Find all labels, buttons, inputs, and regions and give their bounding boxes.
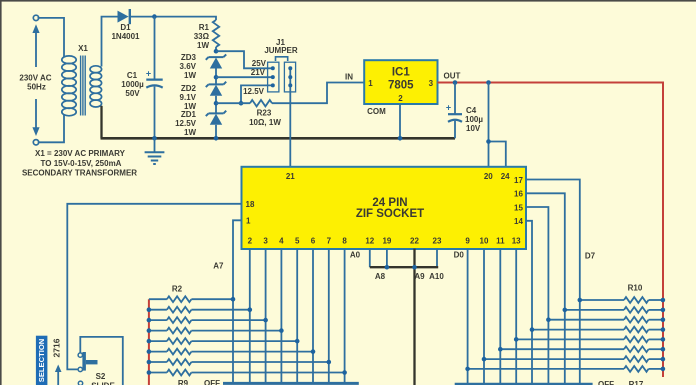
wire ZIF pin 9 vertical <box>467 249 469 384</box>
svg-text:7: 7 <box>327 237 332 246</box>
svg-text:18: 18 <box>246 200 255 209</box>
svg-text:8: 8 <box>342 237 347 246</box>
svg-text:OUT: OUT <box>444 72 461 81</box>
capacitor C4 100u 10V <box>454 83 456 114</box>
wire red rail branch to ZIF pins 20 24 <box>488 83 490 167</box>
svg-text:ZD2: ZD2 <box>181 84 197 93</box>
svg-text:C1: C1 <box>127 71 138 80</box>
node 21V tap <box>214 75 219 80</box>
page border left <box>0 0 2 385</box>
node pin20 pin24 branch junction <box>486 139 491 144</box>
svg-text:9.1V: 9.1V <box>180 93 197 102</box>
svg-text:OFF: OFF <box>204 379 220 385</box>
svg-text:X1 = 230V AC PRIMARY: X1 = 230V AC PRIMARY <box>35 149 126 158</box>
svg-text:22: 22 <box>410 237 419 246</box>
svg-text:2: 2 <box>398 94 403 103</box>
svg-text:A7: A7 <box>213 262 224 271</box>
wire 12.5V tap to jumper <box>241 85 273 103</box>
svg-text:230V AC: 230V AC <box>19 74 51 83</box>
svg-text:A0: A0 <box>350 251 361 260</box>
node right row 6 junction <box>482 357 487 362</box>
svg-text:3: 3 <box>429 79 434 88</box>
node C1 top junction <box>152 14 157 19</box>
svg-text:ZD1: ZD1 <box>181 110 197 119</box>
node right row 4 junction <box>514 337 519 342</box>
node row 5 junction <box>279 328 284 333</box>
resistor R11 row <box>565 309 624 311</box>
svg-text:1W: 1W <box>197 41 209 50</box>
svg-text:12.5V: 12.5V <box>243 87 265 96</box>
connector J1 right block <box>284 62 295 92</box>
svg-text:21V: 21V <box>251 68 266 77</box>
svg-text:17: 17 <box>514 176 523 185</box>
resistor R6 row <box>149 340 167 342</box>
svg-text:SLIDE: SLIDE <box>91 382 115 385</box>
node right row 0 junction <box>578 298 583 303</box>
svg-text:12.5V: 12.5V <box>175 119 197 128</box>
node C1 ground junction <box>152 136 157 141</box>
svg-text:1W: 1W <box>184 71 196 80</box>
wire pin 23 to bus <box>436 249 438 268</box>
node ZD1 ground junction <box>214 136 219 141</box>
wire ZIF pin 11 vertical <box>499 249 501 384</box>
node row 9 junction <box>342 370 347 375</box>
svg-text:33Ω: 33Ω <box>194 32 210 41</box>
svg-text:20: 20 <box>484 172 493 181</box>
wire 5V OUT red rail <box>438 83 664 378</box>
zener diode ZD3 3.6V <box>206 54 226 59</box>
svg-text:IN: IN <box>345 72 353 81</box>
svg-text:15: 15 <box>514 203 523 212</box>
wire ZIF pin 4 vertical <box>280 249 282 384</box>
zener diode ZD2 9.1V <box>206 82 226 87</box>
svg-text:A8: A8 <box>375 272 386 281</box>
wire pin 12 to bus <box>369 249 371 268</box>
resistor R16 row <box>484 358 624 360</box>
svg-text:7805: 7805 <box>388 80 414 92</box>
svg-text:25V: 25V <box>252 59 267 68</box>
DIP switch left top edge <box>223 382 359 385</box>
svg-text:12: 12 <box>365 237 374 246</box>
svg-text:4: 4 <box>279 237 284 246</box>
svg-text:9: 9 <box>465 237 470 246</box>
jumper J1 cap bracket <box>276 57 288 61</box>
resistor R10 row <box>580 299 624 301</box>
AC source arrow up <box>32 24 39 33</box>
wire pin 22 black vertical <box>413 249 415 385</box>
svg-text:OFF: OFF <box>598 380 614 385</box>
diode D1 1N4001 <box>118 11 129 23</box>
svg-text:JUMPER: JUMPER <box>264 46 298 55</box>
wire ground bus <box>101 137 456 140</box>
wire pin 1 vertical <box>233 220 242 383</box>
svg-text:2716: 2716 <box>51 338 61 357</box>
wire left red line <box>148 299 150 385</box>
wire ZIF pin 2 vertical <box>249 249 251 384</box>
svg-text:5: 5 <box>295 237 300 246</box>
wire ZIF pin 7 vertical <box>328 249 330 384</box>
wire COM to ground bus <box>399 104 401 138</box>
svg-text:6: 6 <box>311 237 316 246</box>
node right row 3 junction <box>530 327 535 332</box>
svg-text:SELECTION: SELECTION <box>37 339 46 382</box>
resistor R17 row <box>468 368 624 370</box>
node row 7 junction <box>311 349 316 354</box>
svg-text:+: + <box>446 103 451 113</box>
svg-text:X1: X1 <box>78 44 88 53</box>
node COM ground junction <box>398 136 403 141</box>
svg-text:SECONDARY TRANSFORMER: SECONDARY TRANSFORMER <box>22 168 137 177</box>
wire AC top to primary <box>38 18 65 57</box>
svg-text:R10: R10 <box>628 283 643 292</box>
transformer X1 secondary winding <box>90 66 102 107</box>
node pin22 bus junction <box>412 265 417 270</box>
node right row 7 junction <box>465 367 470 372</box>
wire ZIF pin 15 stub <box>526 207 548 384</box>
node R23 12.5V junction <box>239 101 244 106</box>
resistor R7 row <box>149 351 167 353</box>
AC source arrow down <box>32 127 39 136</box>
svg-text:11: 11 <box>496 237 505 246</box>
svg-text:ZD3: ZD3 <box>181 53 197 62</box>
page border top <box>0 0 696 2</box>
node row 3 junction <box>248 307 253 312</box>
wire ZIF pin 6 vertical <box>312 249 314 384</box>
svg-text:R2: R2 <box>172 285 183 294</box>
resistor R15 row <box>500 348 624 350</box>
node AC input bottom terminal <box>33 140 38 145</box>
node AC input top terminal <box>33 15 38 20</box>
node right row 1 junction <box>563 308 568 313</box>
wire 21V tap to jumper <box>216 76 273 78</box>
svg-text:14: 14 <box>514 217 523 226</box>
node right row 5 junction <box>498 347 503 352</box>
svg-text:IC1: IC1 <box>392 67 411 79</box>
wire secondary bottom to ground bus <box>100 106 102 139</box>
svg-text:23: 23 <box>433 237 442 246</box>
svg-text:19: 19 <box>382 237 391 246</box>
svg-text:R9: R9 <box>178 379 189 385</box>
node 12.5V tap <box>214 101 219 106</box>
wire S2 common up and right <box>80 337 123 385</box>
svg-text:1W: 1W <box>184 128 196 137</box>
svg-text:1: 1 <box>368 79 373 88</box>
svg-text:COM: COM <box>367 107 386 116</box>
svg-text:1000µ: 1000µ <box>121 80 144 89</box>
svg-text:TO 15V-0-15V, 250mA: TO 15V-0-15V, 250mA <box>41 159 122 168</box>
wire 25V tap to jumper <box>216 51 273 68</box>
svg-text:D1: D1 <box>120 23 131 32</box>
svg-text:1: 1 <box>246 217 251 226</box>
wire J1 right common to ZIF pin 21 <box>289 68 291 166</box>
transformer X1 primary winding <box>62 56 76 116</box>
resistor R9 row <box>149 372 167 374</box>
resistor R12 row <box>548 319 624 321</box>
wire AC bottom to primary <box>38 114 64 142</box>
svg-text:R17: R17 <box>629 380 644 385</box>
capacitor C1 1000u 50V <box>154 17 156 79</box>
op-amp regulator IC1 7805 body <box>364 60 437 104</box>
switch S2 lever <box>82 352 86 371</box>
wire ZIF pin 17 stub <box>526 180 580 385</box>
wire secondary top to D1 <box>102 17 118 67</box>
svg-text:21: 21 <box>286 172 295 181</box>
svg-text:16: 16 <box>514 190 523 199</box>
wire pin 19 to bus <box>386 249 388 268</box>
wire ZIF pin 3 vertical <box>265 249 267 384</box>
resistor R4 row <box>149 319 167 321</box>
node row 6 junction <box>295 339 300 344</box>
node pin19 bus junction <box>385 265 390 270</box>
resistor R1 33ohm 1W <box>213 20 219 47</box>
node OUT junction C4 <box>453 80 458 85</box>
bottom pin numbers <box>248 237 522 246</box>
svg-text:2: 2 <box>248 237 253 246</box>
node 25V tap <box>214 49 219 54</box>
svg-text:R23: R23 <box>257 109 272 118</box>
ground symbol <box>154 138 156 151</box>
resistor R14 row <box>516 338 624 340</box>
wire D1 to R1 top rail <box>131 17 216 20</box>
svg-text:1N4001: 1N4001 <box>111 32 140 41</box>
connector J1 left block <box>268 62 279 92</box>
resistor R5 row <box>149 330 167 332</box>
svg-text:24: 24 <box>501 172 510 181</box>
wire ZIF pin 16 stub <box>526 193 565 384</box>
resistor R8 row <box>149 361 167 363</box>
IC 24 pin ZIF socket body <box>242 167 527 249</box>
resistor R2 row <box>149 298 167 300</box>
node row 4 junction <box>263 318 268 323</box>
J1 pins <box>271 66 275 70</box>
svg-text:A9: A9 <box>414 272 425 281</box>
svg-text:3.6V: 3.6V <box>180 62 197 71</box>
wire A bus black <box>370 266 438 268</box>
svg-text:50Hz: 50Hz <box>27 83 46 92</box>
svg-text:S2: S2 <box>96 372 106 381</box>
svg-text:D0: D0 <box>454 251 465 260</box>
wire ZIF pin 10 vertical <box>483 249 485 384</box>
svg-text:R1: R1 <box>199 23 210 32</box>
wire ZIF pin 8 vertical <box>344 249 346 384</box>
switch S2 contacts <box>78 353 82 357</box>
wire ZIF pin 5 vertical <box>296 249 298 384</box>
svg-text:3: 3 <box>263 237 268 246</box>
svg-text:50V: 50V <box>125 89 140 98</box>
svg-text:100µ: 100µ <box>465 115 483 124</box>
svg-text:A10: A10 <box>429 272 444 281</box>
label SELECTION box <box>36 336 48 385</box>
node row 2 junction <box>231 297 236 302</box>
wire pin 18 to S2 <box>67 204 241 370</box>
svg-text:10Ω, 1W: 10Ω, 1W <box>249 118 281 127</box>
resistor R13 row <box>532 329 624 331</box>
node row 8 junction <box>327 360 332 365</box>
svg-text:10V: 10V <box>466 124 481 133</box>
node red rail to ZIF branch <box>486 80 491 85</box>
svg-text:ZIF SOCKET: ZIF SOCKET <box>356 208 424 220</box>
node right row 2 junction <box>546 317 551 322</box>
wire ZIF pin 14 stub <box>526 221 532 384</box>
svg-text:D7: D7 <box>585 251 596 260</box>
DIP switch right top edge <box>455 383 593 385</box>
resistor R3 row <box>149 309 167 311</box>
svg-text:13: 13 <box>512 237 521 246</box>
resistor R23 10ohm 1W <box>216 102 250 104</box>
svg-text:+: + <box>146 69 151 79</box>
wire ZIF pin 13 vertical <box>515 249 517 384</box>
transformer X1 core <box>81 56 86 116</box>
zener diode ZD1 12.5V <box>206 111 226 116</box>
selection arrow <box>55 365 62 373</box>
svg-text:C4: C4 <box>466 106 477 115</box>
svg-text:10: 10 <box>480 237 489 246</box>
